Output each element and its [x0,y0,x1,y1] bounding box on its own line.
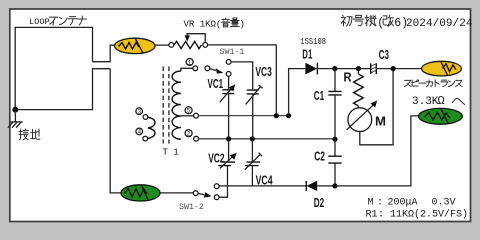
svg-text:VC1: VC1 [208,76,224,91]
pin 2 bus [199,138,335,140]
wire to VC1 [228,76,230,89]
wire [358,68,370,70]
wire rail from VR to detector bus [208,45,277,113]
pin 2 terminal [194,136,199,141]
pin 4 terminal [143,136,148,141]
ground [8,122,23,128]
pin 5 label [185,107,192,115]
svg-text:3.3K: 3.3K [412,96,439,108]
ground label 接地 [19,129,28,140]
junction [286,113,291,118]
junction [332,137,337,142]
wire to VC3 [231,62,253,90]
speaker transformer primary (yellow) [422,61,462,76]
svg-text:VC2: VC2 [208,151,224,166]
SW1-1 contact bottom [226,72,231,77]
capacitor C3 [371,63,377,74]
potentiometer VR [174,34,208,49]
svg-text:R: R [344,70,353,85]
svg-text:SW1-1: SW1-1 [220,48,245,57]
pin 3 terminal [143,115,148,120]
wire to speaker transformer return [335,116,419,186]
junction [226,136,231,141]
SW1-2 contact top [214,184,219,189]
wire VC1 to bus [228,94,230,137]
trimmer capacitor VC3 [246,85,263,105]
svg-text:D2: D2 [314,195,324,210]
title 初号機(改6)2024/09/24 [341,15,473,30]
pin 2 label [185,130,192,138]
meter return wire [360,69,393,145]
wire bus to D1 [289,69,306,116]
junction [356,66,361,71]
transformer T1 core [163,67,169,144]
transformer T1 secondary winding [172,71,181,139]
diode D1 1SS108 [305,63,332,75]
svg-text::: : [377,197,383,208]
diode D2 [306,181,332,191]
svg-text:): ) [240,19,245,29]
svg-text:0.3V: 0.3V [432,197,456,208]
terminal [193,66,198,71]
terminal [205,66,210,71]
switch SW1-1 blade [210,69,216,71]
svg-text:VC3: VC3 [255,64,271,79]
wire VC4 down [251,166,253,186]
trimmer capacitor VC4 [245,139,262,169]
svg-text::: : [378,209,384,220]
loop antenna coil [15,27,121,193]
capacitor C2 [328,140,341,184]
svg-text:(2.5V/FS): (2.5V/FS) [414,208,468,220]
svg-text:1SS108: 1SS108 [300,37,326,47]
junction [391,66,396,71]
pin 5 bus [198,115,288,117]
svg-text:4: 4 [138,129,142,136]
green coil (antenna coupling) [121,185,160,201]
junction [250,136,255,141]
speaker transformer secondary (green) [419,108,463,124]
svg-text:μA: μA [406,197,418,208]
variable capacitor VC2 [218,139,236,168]
pin 4 label [136,128,143,136]
svg-text:M: M [375,114,386,129]
coupling element (yellow ellipse) [115,38,156,54]
svg-text:3: 3 [138,109,142,116]
svg-text:C2: C2 [314,149,325,164]
junction [332,66,337,71]
svg-text:1: 1 [188,59,192,66]
svg-text:SW1-2: SW1-2 [179,203,204,212]
svg-text:2024/09/24: 2024/09/24 [406,18,473,30]
SW1-1 contact top [226,60,231,65]
3.3KΩへ label [412,94,465,108]
capacitor C1 [328,69,341,137]
svg-text:VR 1KΩ(: VR 1KΩ( [184,19,222,29]
LOOP antenna label [29,16,87,27]
pin 1 label [186,59,193,67]
wire to ground [14,110,16,122]
VR label [184,18,245,29]
SW1-2 contact bottom [214,195,219,200]
variable capacitor VC1 [220,84,236,102]
svg-text:C3: C3 [379,47,389,62]
resistor R [354,69,364,108]
junction [274,113,279,118]
svg-text:2: 2 [187,131,191,138]
pin 5 tap wire [181,115,194,117]
svg-text:C1: C1 [314,88,324,103]
junction [332,183,337,188]
SW1-2 feed terminal [193,191,198,196]
pin 5 terminal [194,113,199,118]
wire [335,68,359,70]
wire [377,68,422,70]
wire VC3 to bus [252,94,254,137]
wire green coil to SW1-2 [160,192,193,194]
wire VC2 to switch [219,166,227,198]
svg-text:T 1: T 1 [163,148,179,158]
switch SW1-2 blade [198,194,204,195]
svg-text:11KΩ: 11KΩ [390,209,414,220]
meter M [347,100,378,131]
svg-text:5: 5 [187,108,191,115]
terminal [169,43,174,48]
notes text [366,197,469,220]
transformer T1 primary winding [148,117,155,138]
svg-text:Ω: Ω [438,94,445,108]
svg-text:D1: D1 [302,47,312,62]
svg-text:R1: R1 [366,209,378,220]
wire [155,44,169,46]
pin 3 label [136,108,143,116]
svg-text:LOOP: LOOP [29,17,50,27]
svg-text:M: M [368,197,374,208]
wire top contact to VC4/D2 [219,185,306,187]
wire from transformer pin 1 [181,68,193,71]
svg-text:200: 200 [388,197,406,208]
speaker transformer label スピーカトランス [405,80,463,87]
node at loop bottom corner [12,107,18,113]
